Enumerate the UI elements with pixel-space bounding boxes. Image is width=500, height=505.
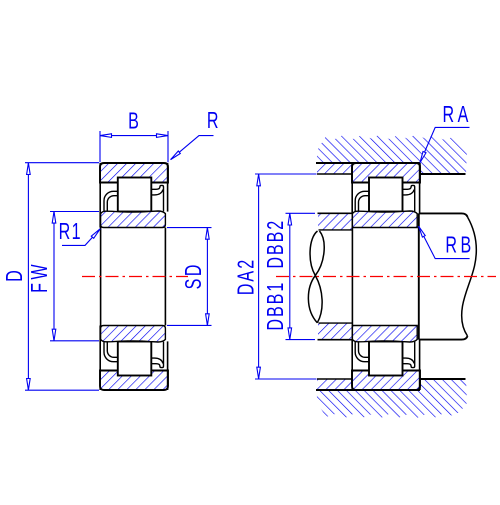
housing left-top shoulder band: [317, 164, 352, 174]
dim DBB top arrow: [288, 214, 292, 226]
leader RB: [419, 226, 470, 258]
housing shoulder top edge left-bottom: [317, 378, 352, 380]
dim B ext lines: [99, 131, 101, 162]
shaft right shoulder surface top: [419, 213, 467, 217]
outer ring upper section right drawing: [352, 163, 420, 183]
dim FW bottom arrow: [52, 329, 56, 341]
inner ring upper section: [101, 211, 166, 228]
roller lower right drawing: [369, 342, 403, 376]
dim D bottom arrow: [27, 379, 31, 391]
dim SD top arrow: [206, 228, 210, 240]
svg-text:DA2: DA2: [234, 258, 259, 296]
outer ring upper section: [100, 163, 168, 183]
cage lower-right stub right drawing: [403, 342, 415, 368]
dim FW ext lines: [50, 211, 99, 213]
roller lower: [118, 342, 152, 376]
cage upper-right stub: [151, 185, 163, 211]
dim SD ext lines: [167, 227, 212, 229]
shaft right shoulder surface bottom: [419, 336, 467, 340]
roller upper: [118, 178, 152, 212]
leader RA arrow: [420, 152, 426, 163]
housing shoulder face right-top: [419, 163, 421, 174]
side face line upper-right right drawing: [419, 163, 421, 213]
dim DA2 bottom arrow: [257, 367, 261, 379]
dim DA2 ext lines: [255, 173, 317, 175]
svg-text:R1: R1: [59, 219, 82, 244]
cage upper-left foot right drawing: [355, 191, 369, 211]
side face line lower-left: [99, 326, 101, 391]
inner ring lower section right drawing: [352, 326, 417, 343]
inner ring upper section right drawing: [352, 211, 417, 228]
dim DBB line: [289, 214, 291, 340]
svg-text:RB: RB: [445, 233, 474, 258]
dim FW line: [53, 212, 55, 341]
dim B line: [100, 135, 168, 137]
svg-text:RA: RA: [443, 102, 472, 127]
side face line lower-left right drawing: [351, 340, 353, 390]
roller upper right drawing: [369, 178, 403, 212]
outer ring lower section right drawing: [352, 371, 420, 391]
dim B right arrow: [157, 134, 169, 138]
cage upper-left foot: [104, 191, 118, 211]
dim DBB ext lines: [286, 212, 316, 214]
dim SD bottom arrow: [206, 314, 210, 326]
side face line lower-right: [167, 341, 169, 390]
dim SD line: [206, 228, 208, 326]
leader RB arrow: [419, 226, 426, 237]
side face line upper-left right drawing: [351, 163, 353, 213]
dim FW top arrow: [52, 212, 56, 224]
shaft inner-ring left face line: [351, 213, 353, 339]
dim B left arrow: [100, 134, 112, 138]
housing seat line top: [316, 162, 420, 164]
svg-text:R: R: [207, 108, 219, 133]
dim D line: [27, 163, 29, 390]
cage upper-right stub right drawing: [403, 185, 415, 211]
svg-text:FW: FW: [27, 261, 52, 293]
housing bottom block hatched: [316, 379, 467, 419]
housing bore line right-bottom: [419, 378, 465, 380]
housing seat line bottom: [316, 389, 420, 391]
housing bore line right-top: [419, 173, 465, 175]
dim D ext lines: [25, 162, 99, 164]
leader R1: [62, 229, 100, 246]
cage lower-right stub: [151, 342, 163, 368]
leader R arrow: [171, 151, 181, 160]
shaft left band bottom: [318, 323, 353, 340]
housing top block hatched: [316, 135, 467, 175]
svg-text:B: B: [128, 109, 139, 134]
shaft break figure-8 left: [308, 231, 324, 323]
bore silhouette right line: [164, 228, 166, 326]
dim DBB bottom arrow: [288, 328, 292, 340]
housing left-bottom shoulder band: [317, 379, 352, 389]
shaft shoulder face right: [418, 213, 420, 339]
svg-text:DBB1 DBB2: DBB1 DBB2: [263, 219, 288, 331]
leader RA: [420, 127, 470, 162]
leader R: [171, 136, 214, 160]
side face line lower-right right drawing: [419, 340, 421, 390]
cage lower-left foot: [104, 341, 118, 361]
shaft left band top: [318, 213, 353, 230]
side face line upper-left: [99, 163, 101, 228]
centerline left drawing: [82, 276, 188, 278]
housing shoulder face right-bottom: [419, 379, 421, 390]
side face line upper-right: [167, 163, 169, 212]
dim DA2 top arrow: [257, 174, 261, 186]
svg-text:SD: SD: [182, 262, 207, 289]
dim D top arrow: [27, 163, 31, 175]
shaft right break curve: [462, 217, 477, 336]
outer ring lower section: [100, 371, 168, 391]
cage lower-left foot right drawing: [355, 341, 369, 361]
bore silhouette left line: [100, 228, 102, 326]
dim DA2 line: [258, 174, 260, 378]
leader R1 arrow: [91, 229, 100, 239]
svg-text:D: D: [2, 270, 27, 282]
centerline right drawing: [276, 276, 496, 278]
inner ring lower section: [101, 326, 166, 343]
housing shoulder bottom edge left-top: [317, 173, 352, 175]
